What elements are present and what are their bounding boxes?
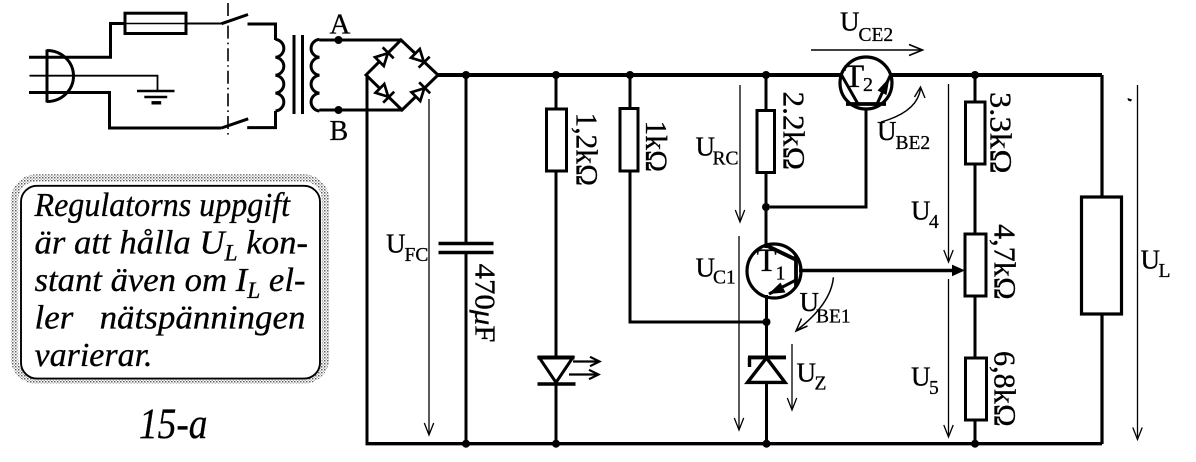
U_RC arrow [735, 85, 744, 222]
resistor R6 6,8k [966, 358, 987, 420]
node B dot [335, 106, 343, 114]
node dot zener-bottom rail [763, 440, 771, 448]
node dot zener junction [763, 318, 771, 326]
U_FC arrow [424, 99, 433, 435]
T1 base wire to potentiometer [799, 269, 956, 272]
svg-text:U: U [911, 362, 931, 392]
wire secondary bottom to bridge [319, 109, 402, 112]
resistor R2 1k [620, 109, 638, 172]
svg-text:är att hålla UL kon-: är att hålla UL kon- [35, 225, 309, 266]
wire 2.2k to T1 collector node [765, 172, 768, 244]
svg-text:FC: FC [405, 245, 429, 266]
wire switch to transformer top [248, 24, 276, 40]
switch S1 pole bottom [222, 119, 249, 128]
wire capacitor branch top [465, 75, 468, 243]
wire load branch top [1100, 75, 1103, 197]
svg-text:CE2: CE2 [859, 25, 894, 46]
wire top rail (bridge to T2) [438, 73, 842, 77]
svg-text:varierar.: varierar. [35, 337, 153, 374]
svg-text:1: 1 [776, 263, 786, 285]
node dot collector junction [762, 203, 770, 211]
wire divider branch top [974, 75, 977, 102]
svg-text:3.3kΩ: 3.3kΩ [984, 92, 1019, 174]
svg-text:4,7kΩ: 4,7kΩ [988, 224, 1023, 300]
svg-text:ler nätspänningen: ler nätspänningen [35, 300, 306, 337]
svg-text:1,2kΩ: 1,2kΩ [570, 113, 605, 187]
wire LED to bottom rail [555, 382, 558, 444]
node dot rail-1.2k [552, 71, 560, 79]
node dot rail-1k [626, 71, 634, 79]
potentiometer R5 4,7k [965, 234, 986, 296]
U_4 arrow [944, 84, 953, 262]
svg-text:RC: RC [713, 149, 739, 170]
svg-text:6,8kΩ: 6,8kΩ [988, 351, 1023, 427]
svg-text:15-a: 15-a [139, 401, 208, 448]
node A dot [335, 36, 343, 44]
diode D2 (top-right arm) [410, 48, 430, 68]
wire switch to transformer bottom [247, 111, 275, 128]
wire plug prong bottom [29, 93, 222, 129]
svg-text:U: U [1141, 245, 1161, 275]
svg-text:A: A [330, 9, 351, 41]
T1 emitter wire [765, 295, 768, 358]
wire T2 base down-left [770, 106, 866, 207]
svg-text:BE1: BE1 [816, 307, 851, 328]
wire zener to bottom rail [765, 382, 768, 444]
svg-text:1kΩ: 1kΩ [639, 121, 674, 173]
node dot LED-bottom rail [552, 440, 560, 448]
svg-text:B: B [330, 116, 349, 147]
diode D3 (left-bottom arm) [374, 83, 394, 103]
wire plug prong top [29, 24, 125, 58]
transistor T1 [747, 244, 801, 298]
svg-text:U: U [797, 358, 817, 388]
wire bottom rail [366, 442, 1103, 445]
svg-text:T: T [757, 243, 777, 279]
switch S1 pole top [222, 15, 249, 24]
svg-text:2: 2 [863, 74, 873, 96]
wire pot to 6.8k [974, 296, 977, 358]
svg-text:Z: Z [815, 374, 827, 395]
transistor T2 [840, 57, 892, 109]
zener diode DZ [748, 357, 787, 382]
T1 collector wire [765, 207, 768, 248]
svg-text:4: 4 [929, 212, 939, 233]
stray mark [1128, 98, 1133, 102]
LED D5 [538, 358, 576, 385]
wire fuse to switch [186, 23, 222, 25]
mains plug P1 [47, 50, 74, 103]
capacitor C1 470uF [439, 244, 494, 253]
ground [137, 91, 175, 103]
wire top rail (T2 to load) [891, 73, 1103, 77]
U_BE1 curved arrow [797, 277, 834, 330]
switch linkage dash-dot line [227, 3, 229, 135]
wire bridge minus drop [366, 75, 369, 444]
fuse F1 [125, 13, 186, 33]
load resistor RL [1082, 197, 1122, 314]
node dot capacitor-bottom rail [462, 440, 470, 448]
wire 2.2k branch top [765, 75, 768, 110]
svg-text:2.2kΩ: 2.2kΩ [777, 92, 812, 171]
U_C1 arrow [734, 236, 743, 430]
node dot rail-divider [971, 71, 979, 79]
svg-text:Regulatorns uppgift: Regulatorns uppgift [34, 187, 292, 224]
diode D1 (left-top arm) [374, 47, 394, 67]
svg-text:BE2: BE2 [896, 133, 931, 154]
svg-text:U: U [911, 196, 931, 226]
diode D4 (bottom-right arm) [410, 82, 430, 102]
transformer TR1 core [294, 35, 303, 114]
svg-text:stant även om IL el-: stant även om IL el- [35, 262, 306, 303]
U_Z arrow [787, 344, 796, 410]
resistor R3 2.2k [757, 111, 775, 173]
svg-text:C1: C1 [713, 268, 736, 289]
resistor R4 3.3k [966, 102, 986, 164]
transformer TR1 primary winding [276, 39, 284, 111]
bridge rectifier arms [366, 40, 438, 110]
node dot divider-bottom rail [971, 440, 979, 448]
node dot rail-capacitor [462, 71, 470, 79]
svg-text:T: T [844, 59, 864, 95]
U_BE2 curved arrow [881, 89, 921, 122]
note box border [21, 186, 320, 379]
wire secondary top to bridge [319, 39, 401, 42]
note text [34, 187, 308, 374]
wire 1.2k branch top [555, 75, 558, 109]
wire 3.3k to pot [974, 164, 977, 234]
svg-text:5: 5 [929, 378, 939, 399]
svg-text:470μF: 470μF [469, 264, 500, 343]
transformer TR1 secondary winding [311, 39, 319, 111]
wire load to bottom rail [1100, 314, 1103, 444]
note box stipple border [15, 178, 326, 380]
node dot rail-2.2k [762, 71, 770, 79]
wire 1.2k to LED [555, 171, 558, 358]
svg-text:U: U [386, 229, 406, 259]
wire 6.8k to bottom rail [974, 420, 977, 444]
U_L arrow [1133, 85, 1142, 440]
wire 1k branch top [629, 75, 632, 109]
potentiometer wiper arrowhead [952, 265, 965, 277]
U_CE2 arrow [811, 45, 923, 56]
U_5 arrow [944, 279, 953, 437]
wire capacitor branch bottom [465, 253, 468, 445]
resistor R1 1,2k [547, 109, 567, 171]
svg-text:U: U [840, 7, 860, 37]
svg-text:U: U [877, 116, 897, 146]
wire 1k to zener node [630, 171, 767, 322]
svg-text:L: L [1159, 261, 1171, 282]
wire plug prong middle (earth lead) [30, 76, 158, 90]
LED light arrows [569, 357, 600, 379]
